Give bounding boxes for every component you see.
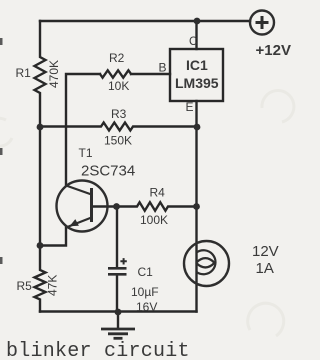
svg-text:LM395: LM395 [175,75,219,91]
svg-text:10K: 10K [108,79,129,93]
svg-text:+12V: +12V [256,42,291,59]
svg-text:R1: R1 [16,66,32,80]
svg-text:blinker circuit: blinker circuit [6,340,190,360]
svg-text:T1: T1 [79,146,93,160]
svg-text:10µF: 10µF [131,285,159,299]
svg-text:100K: 100K [140,213,168,227]
svg-text:12V: 12V [252,243,279,260]
svg-text:47K: 47K [46,275,60,296]
svg-text:150K: 150K [104,134,132,148]
svg-text:C: C [189,36,197,48]
svg-text:16V: 16V [136,300,157,314]
svg-text:R2: R2 [109,51,125,65]
svg-text:IC1: IC1 [186,57,208,73]
svg-text:2SC734: 2SC734 [81,163,135,180]
svg-text:1A: 1A [256,260,274,277]
svg-text:E: E [186,100,194,114]
svg-text:R3: R3 [111,107,127,121]
svg-text:470K: 470K [47,60,61,88]
svg-text:R4: R4 [150,186,166,200]
svg-text:C1: C1 [138,265,154,279]
svg-text:R5: R5 [17,279,33,293]
svg-text:B: B [159,61,167,75]
